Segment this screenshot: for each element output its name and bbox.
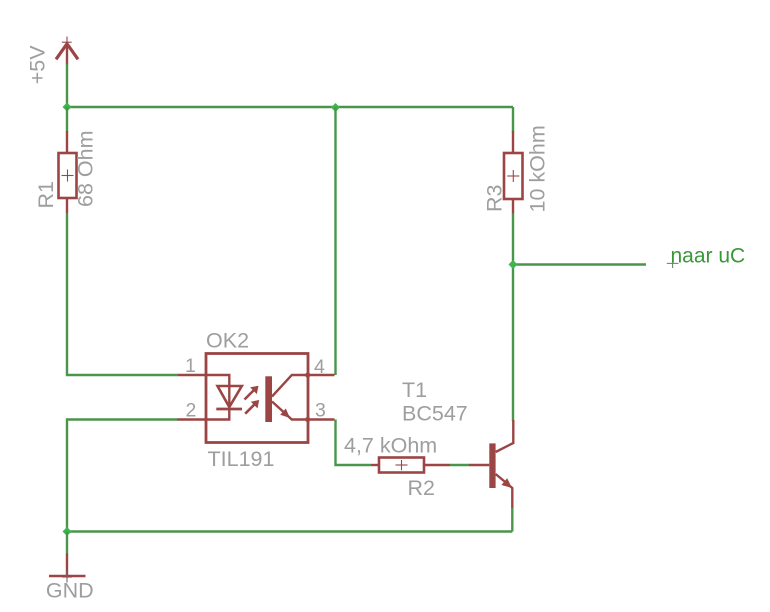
LED vertical through [228,386,230,409]
LED cathode bar [216,408,242,411]
svg-text:1: 1 [185,355,196,377]
svg-text:T1: T1 [402,378,427,402]
net label naar uC [667,245,745,269]
junction at +5V / top rail [63,103,72,112]
ground GND [49,554,86,583]
wire: R1 down to OK2 pin1 row [67,213,178,375]
photo transistor emitter [272,402,308,420]
resistor R1 [59,131,77,213]
LED anode lead [206,375,229,386]
photon arrow lower [245,400,259,414]
T1 base bar [489,443,495,488]
photon arrow upper [245,386,259,400]
svg-text:OK2: OK2 [206,329,249,353]
resistor R3 [504,131,523,214]
wire: R2 to T1 base [450,464,469,466]
T1 emitter [496,474,513,508]
photo transistor emitter arrow [280,409,290,419]
svg-text:4,7 kOhm: 4,7 kOhm [344,434,437,458]
wire: top rail [67,106,513,108]
resistor R2 [371,458,450,473]
svg-text:BC547: BC547 [402,402,468,426]
svg-text:R1: R1 [34,181,58,208]
svg-text:2: 2 [186,400,197,422]
svg-text:TIL191: TIL191 [208,447,275,471]
svg-text:10 kOhm: 10 kOhm [526,125,550,212]
LED cathode lead [206,409,229,420]
wire: middle vertical from top rail to OK2 pin4 [334,107,336,375]
supply +5V symbol [56,37,78,65]
OK2 pin 4 stub [308,374,335,376]
OK2 pin4 connection square [306,373,310,377]
OK2 pin 3 stub [308,418,335,420]
OK2 pin3 connection square [306,417,310,421]
photo transistor collector [272,375,308,397]
wire: OK2 pin2 to left rail down to bottom [67,420,177,532]
transistor T1 [469,420,513,508]
svg-text:3: 3 [315,400,326,422]
svg-text:naar uC: naar uC [671,245,746,268]
wire: output to naar uC [513,263,646,265]
svg-text:R2: R2 [408,476,435,500]
svg-text:68 Ohm: 68 Ohm [74,131,98,207]
LED triangle [218,386,242,407]
svg-text:4: 4 [314,356,325,378]
wire: R3 down to transistor collector [512,213,514,421]
junction at middle vertical / top rail [331,103,340,112]
opto-coupler OK2 [177,354,335,443]
OK2 pin 1 stub [178,374,206,376]
svg-text:GND: GND [46,579,94,603]
junction at output node [509,260,518,269]
wire: GND stem [66,532,68,555]
OK2 pin 2 stub [177,418,206,420]
T1 base stub [469,464,489,466]
T1 collector [496,420,514,452]
wire: +5V stem to top rail [66,64,68,108]
junction at GND stem [63,527,72,536]
svg-text:+5V: +5V [26,45,50,85]
svg-text:R3: R3 [483,184,507,212]
wire: emitter down to bottom rail [511,508,513,532]
wire: OK2 pin3 down and right to R2 [336,420,372,466]
wire: left rail top (to R1) [66,107,68,132]
wire: bottom rail [67,530,512,532]
OK2 box [206,354,308,443]
wire: R3 branch of top rail down [512,107,514,132]
photo transistor base bar [265,376,272,422]
T1 emitter arrow [501,478,512,488]
